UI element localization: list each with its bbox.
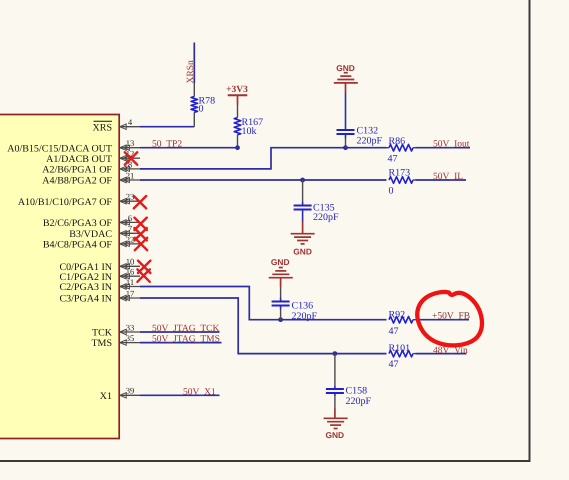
svg-text:4: 4 [128,117,133,127]
svg-text:39: 39 [126,386,135,396]
capacitor C132 [337,125,383,146]
svg-text:21: 21 [126,170,135,180]
pin 6 [120,213,141,225]
wire XRSn vertical [193,43,195,84]
svg-text:X1: X1 [100,391,112,402]
svg-text:47: 47 [389,326,399,337]
pin 13 [120,138,141,150]
svg-text:33: 33 [126,322,135,332]
pin 39 [120,386,141,398]
svg-text:50V_Iout: 50V_Iout [433,140,470,150]
capacitor C136 pins [280,287,282,320]
pin 35 [120,333,141,345]
svg-text:220pF: 220pF [292,311,318,322]
svg-text:A0/B15/C15/DACA OUT: A0/B15/C15/DACA OUT [7,143,112,154]
no-connect X on pin 23 [134,196,146,208]
junction at C135 [300,178,305,183]
resistor R78 [191,95,215,114]
no-connect X on pin 6 [134,218,146,230]
ground GND above C136 [269,257,293,287]
resistor R101 [389,343,416,370]
resistor R173 [389,168,416,197]
svg-text:GND: GND [325,430,344,440]
wire to 50V_Iout [416,147,471,149]
pin 4 [120,117,141,129]
wire 50V_JTAG_TCK [140,331,220,333]
svg-text:R101: R101 [389,343,411,354]
svg-text:C3/PGA4 IN: C3/PGA4 IN [59,294,112,305]
svg-text:C2/PGA3 IN: C2/PGA3 IN [59,282,112,293]
wire 50V_JTAG_TMS [140,342,222,344]
pin 33 [120,322,141,334]
red annotation circle around +50V_FB [417,292,482,345]
wire pin8 net [140,148,387,169]
ground GND below C158 [324,409,348,441]
pin 23 [120,192,141,204]
no-connect X on pin 12 [125,152,137,164]
capacitor C158 [326,386,372,408]
capacitor C135 [294,202,339,223]
svg-text:GND: GND [271,257,290,267]
svg-text:GND: GND [336,63,355,73]
svg-text:16: 16 [126,267,135,277]
power port +3V3 [226,85,248,105]
resistor R167 [234,117,263,137]
svg-text:R86: R86 [389,136,406,147]
svg-text:R173: R173 [389,168,411,179]
wire pin21 net [140,179,387,181]
no-connect X on pin 16 [137,269,149,281]
net label 50V_X1 [183,387,216,397]
svg-text:220pF: 220pF [313,212,339,223]
pin 22 [120,234,141,246]
pin 16 [120,267,141,279]
svg-text:17: 17 [126,288,135,298]
pin 21 [120,170,141,182]
pin names inside IC [7,121,113,402]
svg-text:GND: GND [293,247,312,257]
junction at R167/wire [235,145,240,150]
wire pin4 to R78 [140,126,194,128]
svg-text:R92: R92 [389,309,406,320]
svg-text:+3V3: +3V3 [226,85,248,95]
net label 50V_IL [433,172,463,182]
svg-text:220pF: 220pF [357,136,383,147]
wire to 50V_IL [416,179,467,181]
net label 48V_Vin [433,346,468,356]
wire pin11 net [140,287,387,320]
net label 50V_JTAG_TMS [152,335,220,345]
wire pin17 net [140,298,387,354]
resistor R86 [387,136,416,164]
svg-text:47: 47 [389,359,399,370]
svg-text:C158: C158 [346,386,368,397]
svg-text:50_TP2: 50_TP2 [152,140,182,150]
svg-text:50V_JTAG_TCK: 50V_JTAG_TCK [152,324,219,334]
net label 50_TP2 [152,140,182,150]
svg-text:A2/B6/PGA1 OF: A2/B6/PGA1 OF [42,165,112,176]
net label 50V_JTAG_TCK [152,324,219,334]
pin 7 [120,224,141,236]
no-connect X on pin 22 [135,238,147,250]
no-connect X on pin 10 [138,261,150,273]
resistor R167 pins [237,105,239,148]
pin 8 [120,159,141,171]
svg-text:0: 0 [199,104,204,115]
svg-text:50V_X1: 50V_X1 [183,387,216,397]
svg-text:B4/C8/PGA4 OF: B4/C8/PGA4 OF [43,240,113,251]
svg-text:22: 22 [126,234,135,244]
resistor R78 pins [193,83,195,127]
svg-text:XRS: XRS [93,122,112,133]
resistor R92 [389,309,418,337]
svg-text:7: 7 [128,224,133,234]
svg-text:50V_IL: 50V_IL [433,172,463,182]
svg-text:10: 10 [126,257,135,267]
IC U1 body [0,115,119,439]
no-connect X on pin 7 [134,228,146,240]
svg-text:48V_Vin: 48V_Vin [433,346,468,356]
svg-text:220pF: 220pF [346,396,372,407]
svg-text:A1/DACB OUT: A1/DACB OUT [46,154,112,165]
svg-text:B3/VDAC: B3/VDAC [69,229,112,240]
wire to 48V_Vin [416,353,467,355]
svg-text:TMS: TMS [91,338,112,349]
svg-text:47: 47 [388,154,398,165]
pin 11 [120,277,141,289]
pin 17 [120,288,141,300]
svg-text:50V_JTAG_TMS: 50V_JTAG_TMS [152,335,220,345]
wire 50V_X1 [140,394,220,396]
svg-text:A10/B1/C10/PGA7 OF: A10/B1/C10/PGA7 OF [18,197,113,208]
svg-text:TCK: TCK [92,328,113,339]
svg-text:+50V_FB: +50V_FB [432,311,470,321]
capacitor C158 pins [334,354,336,409]
svg-text:11: 11 [126,277,134,287]
ground GND below C135 [291,222,315,257]
svg-text:0: 0 [389,186,394,197]
svg-text:10k: 10k [242,126,257,137]
net label +50V_FB [432,311,470,321]
net label XRSn [186,60,196,83]
net label 50V_Iout [433,140,470,150]
svg-text:6: 6 [128,213,133,223]
svg-text:B2/C6/PGA3 OF: B2/C6/PGA3 OF [43,218,113,229]
svg-text:13: 13 [126,138,135,148]
svg-text:35: 35 [126,333,135,343]
wire to +50V_FB [418,319,470,321]
wire pin13 to R167 [140,147,238,149]
junction at C136 [278,317,283,322]
junction at C158 [333,351,338,356]
pin 10 [120,257,141,269]
svg-text:C136: C136 [292,300,314,311]
capacitor C132 pins [345,93,347,148]
svg-text:XRSn: XRSn [186,60,196,83]
capacitor C136 [272,300,318,322]
junction at C132 [343,145,348,150]
svg-text:A4/B8/PGA2 OF: A4/B8/PGA2 OF [42,176,112,187]
capacitor C135 pins [302,180,304,222]
ground GND above C132 [334,63,358,93]
pin 12 [120,149,141,161]
